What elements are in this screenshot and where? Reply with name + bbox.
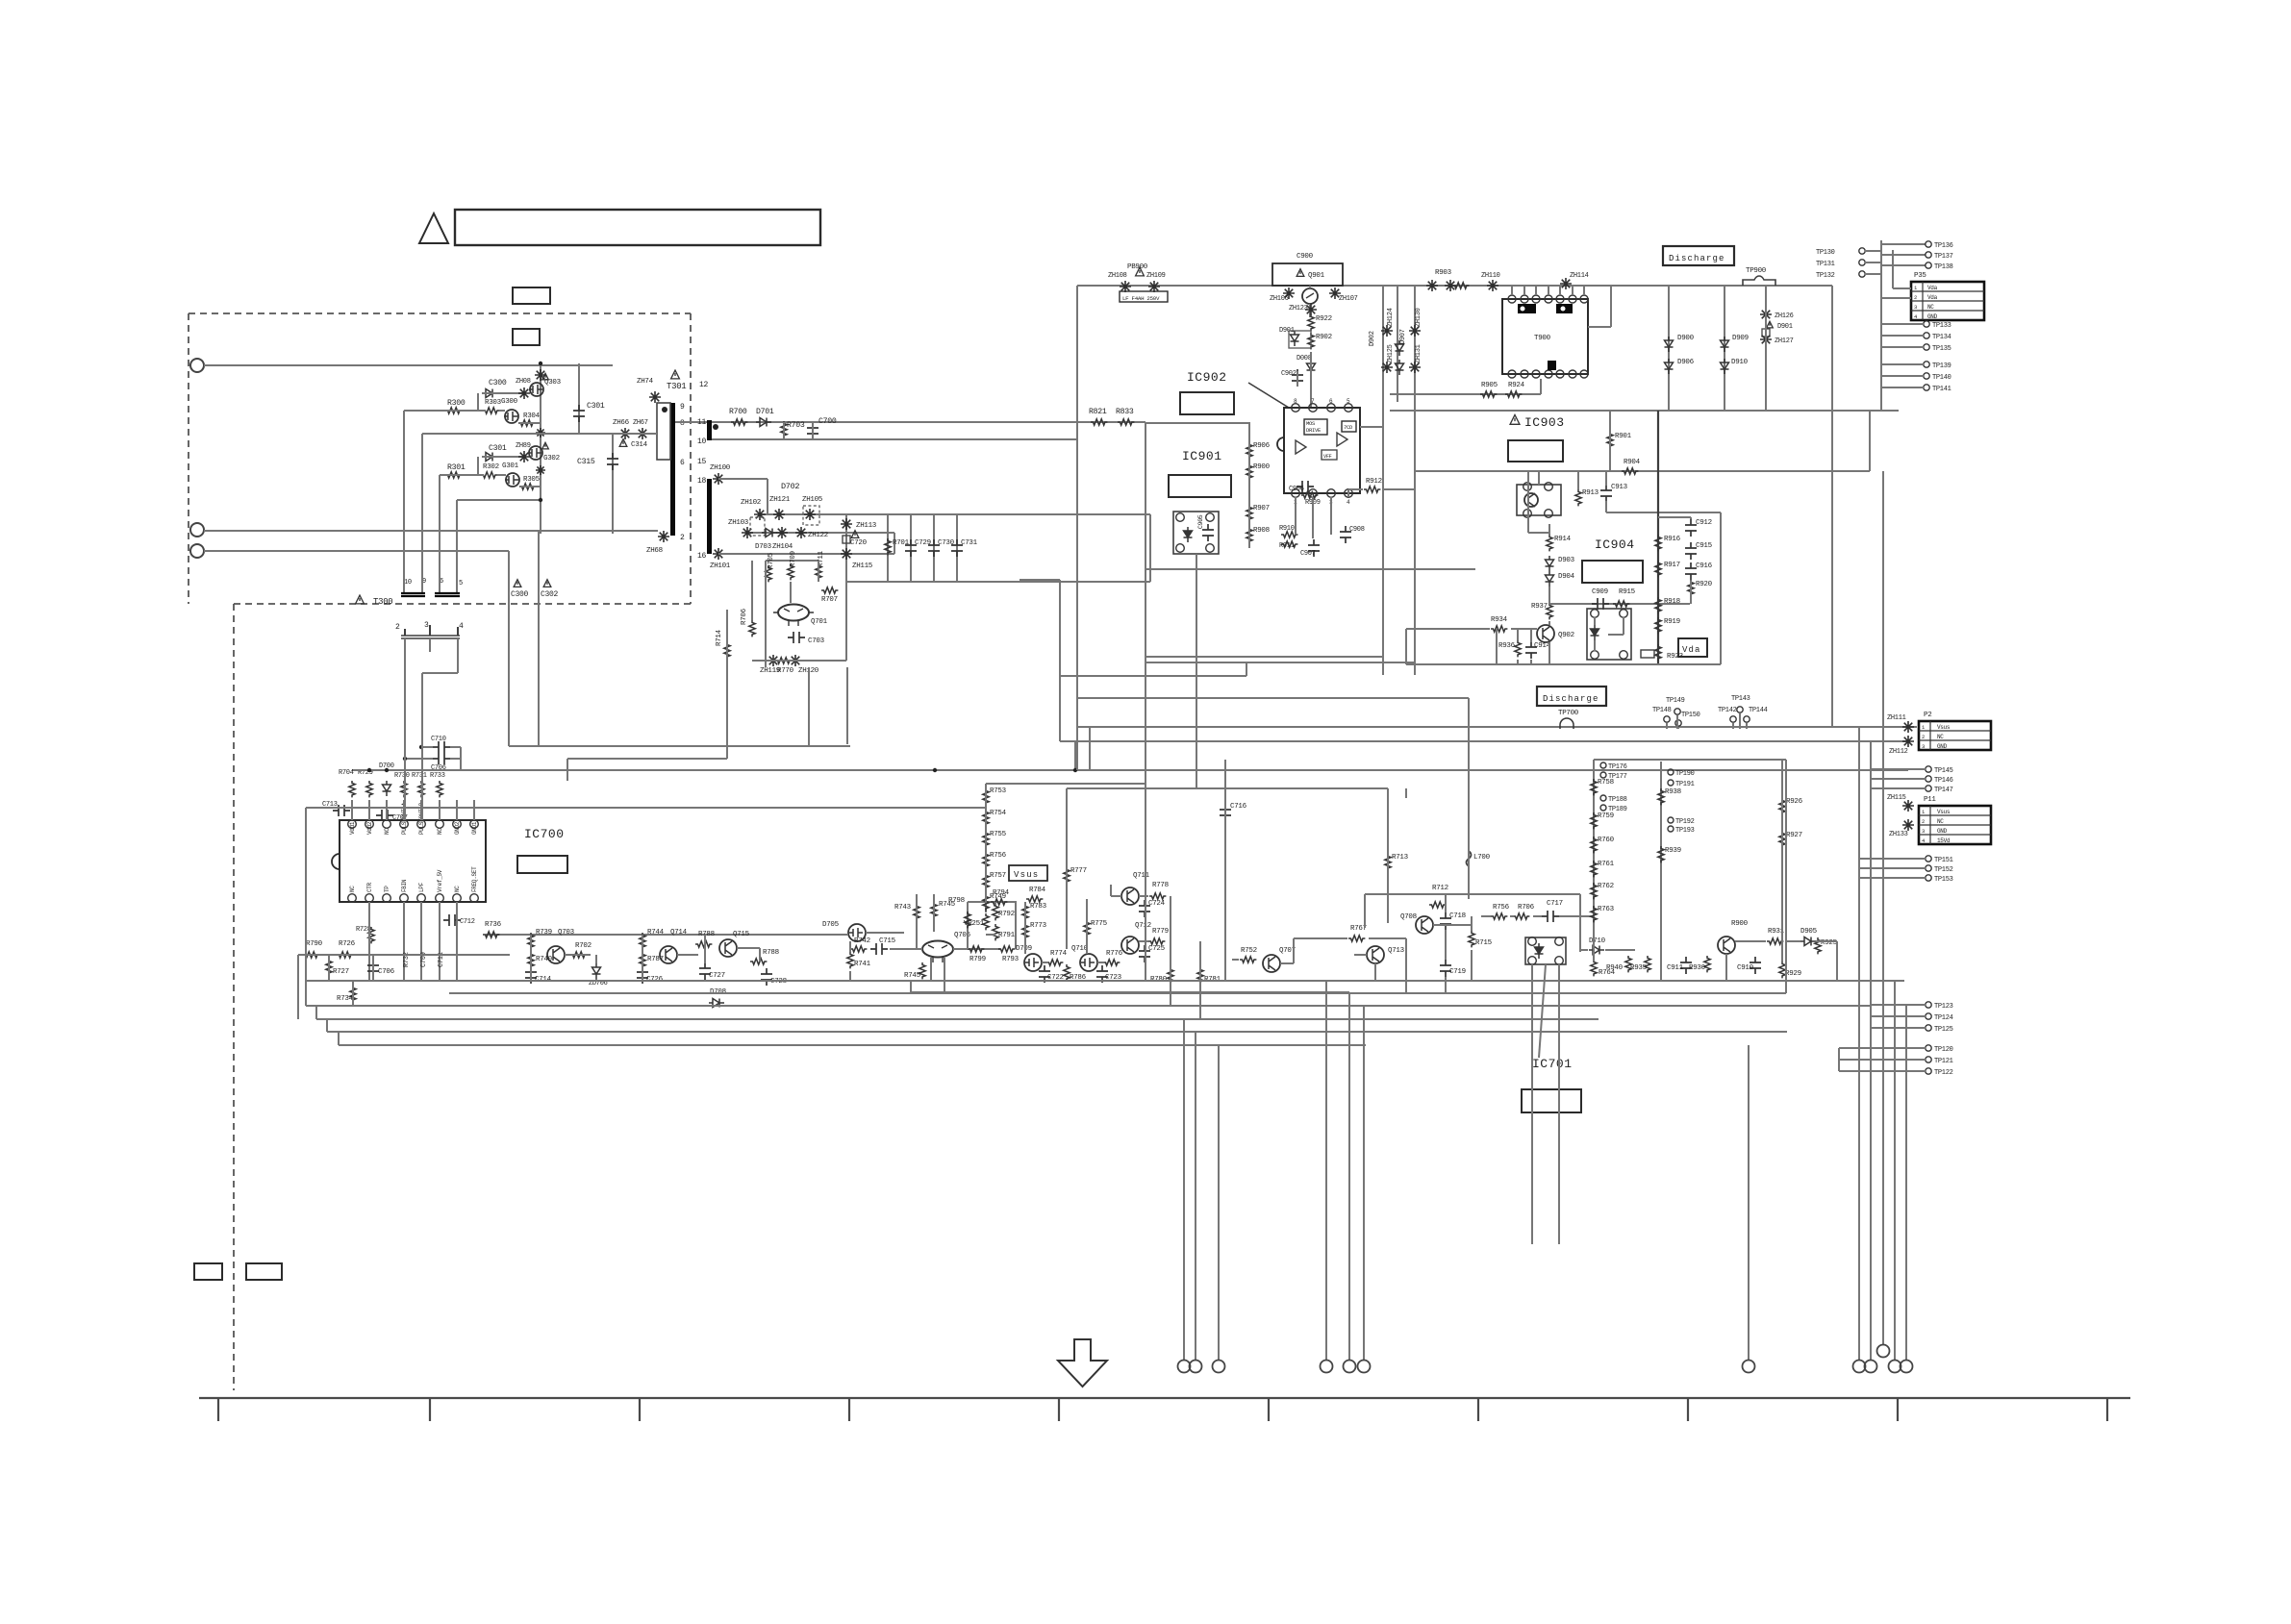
- svg-text:R744: R744: [647, 929, 665, 937]
- ic700 bottom pin 5: [417, 894, 426, 903]
- resistor R301: [445, 472, 462, 478]
- svg-text:R833: R833: [1116, 408, 1134, 416]
- diode in ic904 pads: [1591, 625, 1599, 640]
- transistor Q713: [1367, 946, 1384, 963]
- rail left block y776: [509, 745, 850, 747]
- wire q900 row: [1735, 940, 1766, 942]
- zh star ZH88: [518, 387, 530, 399]
- zh star ZH115: [841, 548, 852, 560]
- svg-text:D910: D910: [1731, 359, 1749, 366]
- ic902 pin 8: [1292, 404, 1300, 412]
- capacitor C713: [333, 805, 350, 816]
- svg-text:C706: C706: [378, 968, 395, 976]
- zh star ZH124: [1381, 325, 1393, 337]
- resistor R745 low: [919, 962, 925, 979]
- mosfet Q709: [1024, 954, 1042, 971]
- svg-text:R919: R919: [1664, 618, 1680, 626]
- resistor R909: [1301, 492, 1318, 498]
- transistor Q711: [1121, 887, 1139, 905]
- triangle q302: [542, 442, 549, 449]
- svg-text:Discharge: Discharge: [1669, 254, 1725, 263]
- wire ZH103 row: [747, 532, 894, 534]
- resistor chain R749: [983, 894, 989, 911]
- frame q706 gray loop bottom: [911, 991, 1349, 993]
- wire q902 links: [1548, 524, 1550, 535]
- svg-text:R762: R762: [1598, 883, 1614, 890]
- svg-text:TP124: TP124: [1934, 1014, 1953, 1022]
- resistor R789: [750, 959, 767, 964]
- svg-text:R911: R911: [1279, 542, 1295, 550]
- svg-text:C905: C905: [1197, 514, 1204, 529]
- resistor R920: [1688, 580, 1694, 596]
- tp TP140: [1924, 373, 1929, 379]
- wire from terminal 1: [204, 364, 613, 366]
- zh star ZH121: [773, 509, 785, 520]
- svg-text:16: 16: [697, 552, 707, 561]
- svg-text:R756: R756: [990, 852, 1007, 860]
- wire T300 pin2 to IC700: [404, 638, 406, 820]
- tp circle TP193: [1668, 826, 1674, 832]
- svg-text:C916: C916: [1696, 562, 1713, 570]
- capacitor C906: [1297, 481, 1314, 492]
- svg-text:R900: R900: [1731, 920, 1749, 928]
- wire p35 stubs: [1893, 287, 1911, 289]
- zh star ZH130: [1409, 325, 1421, 337]
- zh star ZH112: [1902, 736, 1914, 747]
- T900 winding bar 3: [1548, 361, 1556, 370]
- ruler tick x665: [639, 1398, 641, 1421]
- svg-text:R792: R792: [998, 911, 1015, 918]
- svg-text:IC901: IC901: [1182, 449, 1222, 463]
- svg-text:R783: R783: [1030, 903, 1047, 911]
- svg-text:R791: R791: [998, 932, 1016, 939]
- svg-text:R910: R910: [1279, 525, 1295, 533]
- svg-text:D907: D907: [1399, 329, 1407, 344]
- svg-text:C911: C911: [1667, 964, 1684, 972]
- svg-text:GND2: GND2: [454, 821, 461, 835]
- resistor R905: [1480, 391, 1497, 397]
- resistor R304: [518, 420, 535, 426]
- resistor R700: [731, 419, 747, 425]
- svg-text:R705: R705: [768, 552, 775, 569]
- terminal circle 3: [190, 544, 204, 558]
- svg-text:R798: R798: [948, 897, 965, 905]
- svg-text:R740: R740: [536, 956, 553, 963]
- svg-text:R905: R905: [1481, 382, 1498, 389]
- T900 bottom pin 10: [1532, 370, 1540, 378]
- resistor R783: [1022, 904, 1028, 920]
- svg-text:R788: R788: [698, 931, 715, 938]
- svg-text:R770: R770: [777, 667, 794, 675]
- mosfet Q303: [530, 383, 543, 396]
- resistor R729: [366, 781, 372, 797]
- svg-text:C724: C724: [1148, 900, 1166, 908]
- wire q707 links: [1232, 959, 1239, 961]
- ic901 part box: [1169, 475, 1231, 497]
- svg-text:PB900: PB900: [1127, 263, 1148, 271]
- main cluster vertical: [540, 363, 541, 534]
- ic700 top pin 14: [383, 820, 391, 829]
- diode inside IC701: [1535, 943, 1544, 959]
- diode D904: [1546, 571, 1554, 587]
- svg-text:NC: NC: [1937, 734, 1944, 740]
- ic700 bottom pin 8: [470, 894, 479, 903]
- connector circle x1418: [1358, 1361, 1371, 1373]
- connector P11: [1919, 806, 1991, 844]
- transformer T301 primary outline: [657, 403, 670, 460]
- svg-text:R934: R934: [1491, 616, 1508, 624]
- T900 phase dots: [1521, 307, 1525, 312]
- zh star ZH106: [1283, 287, 1295, 299]
- svg-text:D705: D705: [822, 921, 840, 929]
- svg-text:D901: D901: [1777, 323, 1793, 331]
- connector P35: [1911, 282, 1984, 320]
- connector circle x1933: [1853, 1361, 1866, 1373]
- wire gray loop c913: [1606, 512, 1721, 513]
- resistor R300: [445, 408, 462, 413]
- vertical drive frame x1462: [1405, 788, 1407, 798]
- resistor R727: [326, 959, 332, 975]
- svg-text:ZH100: ZH100: [710, 464, 731, 472]
- wire c710 link: [421, 746, 433, 748]
- wire d705 links: [827, 934, 848, 936]
- wire drop + circle 2: [1195, 1032, 1196, 1360]
- resistor R922: [1308, 314, 1314, 331]
- svg-text:R916: R916: [1664, 536, 1681, 543]
- label Vsus box: [1009, 865, 1047, 881]
- wire ic904 bottom rail: [1406, 663, 1721, 665]
- resistor R703: [781, 421, 787, 437]
- legend box 1: [194, 1263, 222, 1280]
- svg-text:R776: R776: [1106, 950, 1123, 958]
- svg-text:TP176: TP176: [1608, 763, 1627, 771]
- vertical link x1133: [1089, 727, 1091, 770]
- svg-text:R799: R799: [969, 956, 986, 963]
- svg-text:G300: G300: [501, 398, 518, 406]
- diode D910: [1721, 359, 1729, 374]
- resistor R911: [1281, 541, 1297, 547]
- svg-text:R712: R712: [1432, 885, 1448, 892]
- resistor R740: [528, 952, 534, 968]
- wire drop + circle 1: [1183, 1019, 1185, 1360]
- svg-text:Q715: Q715: [733, 931, 750, 938]
- zh star ZH68: [658, 531, 669, 542]
- capacitor C730: [928, 539, 940, 557]
- svg-text:TP900: TP900: [1746, 267, 1767, 275]
- svg-text:T300: T300: [373, 597, 392, 607]
- svg-text:C302: C302: [541, 590, 559, 599]
- enclosure bottom rail 3: [1145, 568, 1475, 570]
- loop frame left: [1364, 894, 1366, 928]
- svg-text:C301: C301: [587, 402, 605, 411]
- tp circle TP190: [1668, 769, 1674, 775]
- dashed enclosure right: [690, 313, 692, 604]
- svg-text:R300: R300: [447, 399, 466, 408]
- svg-text:ZH105: ZH105: [802, 496, 823, 504]
- svg-text:IC902: IC902: [1187, 370, 1227, 385]
- diode D908: [1307, 360, 1316, 375]
- capacitor C719: [1440, 960, 1451, 977]
- T900 bottom pin 14: [1580, 370, 1588, 378]
- svg-text:ZH122: ZH122: [808, 532, 828, 539]
- svg-text:R927: R927: [1786, 832, 1802, 839]
- mosfet Q300: [505, 410, 518, 423]
- svg-text:R784: R784: [1029, 887, 1046, 894]
- svg-text:2: 2: [1914, 294, 1917, 301]
- wire ic701 verticals: [1531, 964, 1533, 1244]
- enclosure bottom rail 2: [1145, 662, 1415, 663]
- svg-text:11: 11: [697, 418, 707, 427]
- resistor R788: [695, 941, 712, 947]
- thermistor Q901 circle: [1302, 288, 1318, 304]
- zh star ZH119: [768, 655, 779, 666]
- legend box 2: [246, 1263, 282, 1280]
- vertical from IC901 area x1102: [1059, 580, 1061, 741]
- svg-text:TP138: TP138: [1934, 263, 1953, 271]
- resistor R908: [1246, 527, 1252, 543]
- Vda box: [1678, 638, 1707, 657]
- wire pin11 rail: [712, 421, 1145, 423]
- svg-text:R917: R917: [1664, 562, 1680, 569]
- svg-text:7CD: 7CD: [1344, 424, 1353, 431]
- svg-text:D710: D710: [1589, 937, 1606, 945]
- svg-text:R913: R913: [1582, 489, 1599, 497]
- tp TP120: [1926, 1045, 1931, 1051]
- svg-text:IC903: IC903: [1524, 415, 1565, 430]
- svg-text:ZH113: ZH113: [856, 522, 877, 530]
- svg-text:R907: R907: [1253, 505, 1270, 512]
- loop frame top: [1365, 893, 1580, 895]
- vertical right rail C: [1882, 471, 1884, 1345]
- diode ZD706: [592, 963, 601, 979]
- svg-text:TP135: TP135: [1932, 345, 1951, 353]
- wire T301 pin8 to winding11: [675, 421, 707, 423]
- T900 winding bar 2: [1556, 304, 1573, 313]
- top HV bus: [1077, 285, 1832, 287]
- svg-text:TP132: TP132: [1816, 272, 1835, 280]
- svg-text:C301: C301: [489, 444, 507, 453]
- svg-text:TP125: TP125: [1934, 1026, 1953, 1034]
- inductor L700: [1467, 851, 1472, 866]
- resistor R744: [640, 933, 645, 949]
- rail Vsus to P2: [1077, 726, 1917, 728]
- capacitor C907: [1308, 539, 1320, 557]
- T900 bottom pin 11: [1545, 370, 1552, 378]
- svg-text:IC700: IC700: [524, 827, 565, 841]
- svg-text:R901: R901: [1615, 433, 1632, 440]
- svg-text:R936: R936: [1498, 642, 1516, 650]
- wire ic902 top stub: [1310, 352, 1312, 408]
- wire vr link: [985, 902, 987, 912]
- resistor R759: [1591, 812, 1597, 829]
- svg-text:IC701: IC701: [1532, 1057, 1573, 1071]
- diode D703: [762, 529, 777, 537]
- terminal circle 2: [190, 523, 204, 537]
- wire top tp stubs: [1881, 243, 1926, 245]
- svg-text:8: 8: [680, 419, 685, 428]
- tp TP122: [1926, 1068, 1931, 1074]
- svg-text:GND: GND: [1927, 313, 1938, 320]
- svg-text:TP121: TP121: [1934, 1058, 1953, 1065]
- svg-text:R759: R759: [1598, 812, 1614, 820]
- resistor R709: [788, 563, 793, 580]
- vertical x529 drop: [508, 551, 510, 604]
- connector circle x1403: [1344, 1361, 1356, 1373]
- resistor R939: [1658, 846, 1664, 862]
- wire ic902 bottom stubs: [1295, 497, 1297, 535]
- pin stub wires ic700 bottom: [368, 902, 370, 981]
- winding bar pin18-16: [707, 479, 712, 554]
- svg-text:R939: R939: [1665, 847, 1681, 855]
- wire tp stubs: [1666, 723, 1668, 729]
- resistor R741: [847, 952, 853, 968]
- ic902 leader line: [1248, 383, 1289, 408]
- svg-text:C716: C716: [1230, 803, 1247, 811]
- zh star ZH125: [1381, 362, 1393, 373]
- wire r901 vert: [1609, 411, 1611, 471]
- connector circle x1970: [1889, 1361, 1901, 1373]
- svg-text:ZH111: ZH111: [1887, 714, 1906, 722]
- zh star ZH105: [804, 509, 816, 520]
- resistor R940: [1625, 956, 1631, 972]
- svg-text:C725: C725: [1148, 945, 1166, 953]
- wire frame c716 top: [1067, 787, 1388, 789]
- resistor R913: [1575, 489, 1581, 506]
- svg-text:R709: R709: [790, 551, 797, 567]
- frame line y840: [306, 807, 986, 809]
- junction dots y801: [933, 768, 937, 772]
- ic902 pin 6: [1327, 404, 1336, 412]
- tp TP136: [1926, 241, 1931, 247]
- resistor R762: [1591, 883, 1597, 899]
- cap C314 triangle: [619, 439, 627, 447]
- wire r chain ic902: [1248, 422, 1250, 548]
- svg-text:10: 10: [404, 579, 412, 587]
- svg-text:IC904: IC904: [1595, 537, 1635, 552]
- tp TP125: [1926, 1025, 1931, 1031]
- zh star ZH109: [1148, 281, 1160, 292]
- diode D905: [1800, 937, 1816, 946]
- ruler tick x1537: [1477, 1398, 1479, 1421]
- resistor R923: [1655, 644, 1661, 661]
- resistor chain R754: [983, 810, 989, 826]
- ruler tick x1319: [1268, 1398, 1270, 1421]
- mosfet D705: [848, 924, 866, 941]
- svg-text:R902: R902: [1316, 334, 1332, 341]
- vertical x1196: [1149, 514, 1151, 582]
- svg-text:3: 3: [1914, 304, 1917, 311]
- svg-text:R700: R700: [729, 408, 747, 416]
- svg-text:10: 10: [697, 437, 707, 446]
- svg-text:3: 3: [1922, 828, 1925, 835]
- wire q706 drops: [930, 958, 932, 981]
- wire d710: [1580, 949, 1588, 951]
- mosfet Q710: [1080, 954, 1097, 971]
- svg-text:C910: C910: [1737, 964, 1754, 972]
- wire reg bottom rail: [752, 660, 846, 662]
- long rail y801: [353, 769, 1908, 771]
- svg-text:C900: C900: [1297, 253, 1314, 261]
- svg-text:Vdd2: Vdd2: [366, 821, 373, 835]
- resistor R767: [1348, 936, 1365, 941]
- svg-text:ZH101: ZH101: [710, 562, 731, 570]
- zh star ZH108: [1120, 281, 1131, 292]
- opamp 2 in ic902: [1337, 433, 1347, 446]
- svg-text:C703: C703: [808, 637, 825, 645]
- dashed vertical rail to bottom: [233, 604, 235, 1390]
- zh star ZH104: [776, 527, 788, 538]
- resistor R799: [968, 946, 984, 952]
- tp circle TP177: [1600, 772, 1606, 778]
- svg-text:Vda: Vda: [1927, 285, 1938, 291]
- vertical right rail A: [1858, 727, 1860, 1361]
- svg-text:Vsus: Vsus: [1937, 809, 1951, 815]
- wire below T900: [1390, 393, 1541, 395]
- wire q709 links: [1024, 902, 1026, 954]
- zh stars ZH66 ZH67: [619, 428, 631, 439]
- wire frame l700 box: [1468, 698, 1470, 729]
- capacitor C726: [637, 966, 648, 984]
- svg-text:TP: TP: [384, 886, 390, 892]
- wire r780 vert: [1170, 896, 1171, 1006]
- resistor R758: [1591, 779, 1597, 795]
- terminal circle 1: [190, 359, 204, 372]
- rail y789 jog: [567, 758, 727, 760]
- wire from terminal 3: [204, 550, 509, 552]
- capacitor C911: [1680, 957, 1692, 974]
- svg-text:4: 4: [459, 622, 464, 631]
- capacitor C905: [1202, 524, 1214, 541]
- mos drive box: [1304, 419, 1327, 435]
- tp TP147: [1926, 786, 1931, 791]
- tp TP135: [1924, 344, 1929, 350]
- svg-text:R707: R707: [821, 596, 838, 604]
- svg-text:FREQ.SET: FREQ.SET: [471, 866, 478, 892]
- ruler tick x1101: [1058, 1398, 1060, 1421]
- HV vertical D902 right: [1414, 286, 1416, 675]
- resistor R778: [1149, 893, 1166, 899]
- frame loop vertical x947: [910, 981, 912, 992]
- resistor R743: [914, 904, 919, 920]
- svg-text:R304: R304: [523, 412, 541, 420]
- svg-text:Q901: Q901: [1308, 272, 1325, 280]
- svg-text:6: 6: [680, 459, 685, 467]
- tp TP141: [1924, 385, 1929, 390]
- resistor R929: [1779, 962, 1785, 978]
- svg-text:TP192: TP192: [1675, 818, 1695, 826]
- title box: [455, 210, 820, 245]
- resistor R746: [931, 902, 937, 918]
- diode D905b: [1665, 359, 1674, 374]
- resistor R739: [528, 933, 534, 949]
- svg-text:R915: R915: [1619, 588, 1636, 596]
- resistor R734: [350, 986, 356, 1002]
- resistor R760: [1591, 837, 1597, 853]
- diode D901b: [1291, 331, 1299, 346]
- resistor R728: [368, 927, 374, 943]
- svg-text:LPF: LPF: [418, 882, 425, 892]
- resistor chain R755: [983, 831, 989, 847]
- resistor R781: [1197, 967, 1203, 984]
- resistor R305: [519, 484, 536, 489]
- cap C720 triangle: [851, 531, 859, 538]
- transistor Q902: [1537, 625, 1554, 642]
- ic700 top pin 11: [436, 820, 444, 829]
- svg-text:D709: D709: [1016, 945, 1032, 953]
- rect rail ZH102 bus: [760, 513, 1150, 515]
- wire drop + circle 6: [1363, 1006, 1365, 1360]
- resistor R937: [1547, 603, 1552, 619]
